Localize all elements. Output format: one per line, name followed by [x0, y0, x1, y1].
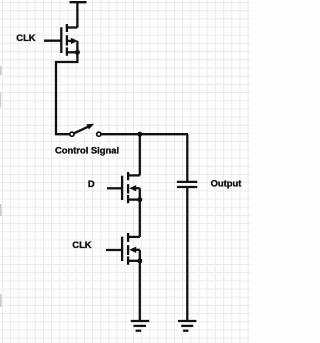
svg-text:Control Signal: Control Signal	[55, 145, 119, 156]
svg-text:CLK: CLK	[16, 32, 35, 43]
svg-text:D: D	[88, 178, 95, 189]
svg-text:CLK: CLK	[72, 239, 91, 250]
svg-text:Output: Output	[211, 178, 242, 189]
